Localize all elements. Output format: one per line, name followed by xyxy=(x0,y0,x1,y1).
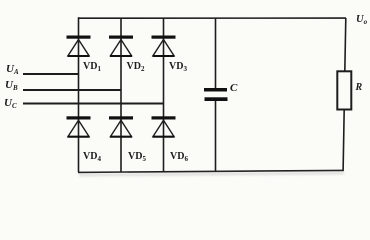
wire input phase B xyxy=(23,89,121,91)
svg-text:UA: UA xyxy=(6,63,19,76)
wire load branch lower xyxy=(343,109,344,171)
diode VD3 xyxy=(152,36,176,57)
scan shadow under bottom rail xyxy=(79,173,344,175)
diode VD2 xyxy=(109,36,133,57)
wire input phase A xyxy=(23,73,79,75)
wire bottom rail (-) xyxy=(78,170,343,172)
wire column 1 (VD1/VD4 leg) xyxy=(78,17,80,172)
wire column 3 (VD3/VD6 leg) xyxy=(163,18,165,172)
svg-text:UC: UC xyxy=(4,97,17,110)
svg-text:R: R xyxy=(355,82,363,93)
diode VD4 xyxy=(67,116,91,137)
svg-text:VD4: VD4 xyxy=(83,151,101,163)
svg-text:UB: UB xyxy=(5,79,18,92)
svg-text:VD5: VD5 xyxy=(128,151,146,163)
svg-text:VD2: VD2 xyxy=(127,61,145,73)
capacitor C xyxy=(204,88,228,101)
svg-text:C: C xyxy=(230,82,238,94)
diode VD1 xyxy=(67,36,91,57)
svg-text:VD3: VD3 xyxy=(169,61,187,73)
resistor R xyxy=(337,71,351,109)
diode VD5 xyxy=(109,116,133,137)
diode VD6 xyxy=(152,116,176,137)
wire input phase C xyxy=(23,103,164,105)
wire capacitor branch upper xyxy=(215,18,217,89)
wire load branch upper xyxy=(345,18,346,72)
wire column 2 (VD2/VD5 leg) xyxy=(120,18,122,172)
wire capacitor branch lower xyxy=(215,101,217,172)
svg-text:VD1: VD1 xyxy=(83,61,101,73)
svg-text:VD6: VD6 xyxy=(170,151,188,163)
svg-text:Uo: Uo xyxy=(356,14,368,26)
wire top rail (+) xyxy=(78,17,346,19)
